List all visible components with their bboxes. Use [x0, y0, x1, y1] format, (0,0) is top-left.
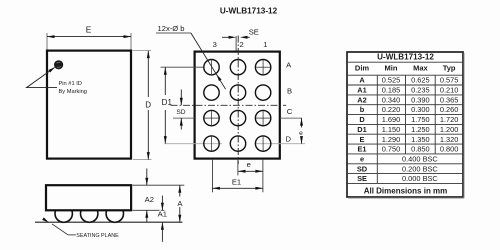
SE label	[249, 27, 259, 36]
svg-text:Pin #1 ID: Pin #1 ID	[59, 81, 82, 87]
svg-text:B: B	[287, 86, 292, 95]
svg-text:Dim: Dim	[355, 64, 370, 73]
svg-text:e: e	[247, 160, 251, 169]
ball B1	[255, 85, 270, 100]
svg-text:0.800: 0.800	[440, 145, 459, 154]
svg-text:1.150: 1.150	[382, 125, 401, 134]
A1 dimension arrows	[161, 196, 164, 242]
table row A1	[357, 86, 458, 95]
package body (side view)	[46, 185, 131, 210]
row label A	[286, 60, 292, 69]
column label 3	[213, 40, 217, 49]
seating plane line	[35, 221, 182, 223]
svg-text:E: E	[360, 135, 365, 144]
svg-text:1.200: 1.200	[440, 125, 459, 134]
table grid vertical lines	[377, 75, 435, 183]
E1 dimension label	[232, 177, 241, 186]
svg-text:0.750: 0.750	[382, 145, 401, 154]
table row e	[360, 154, 438, 163]
seating plane leader	[42, 217, 76, 235]
row C extension line (left, gray)	[173, 117, 195, 119]
ball B3	[204, 85, 219, 100]
SE offset line	[235, 36, 237, 51]
svg-text:A2: A2	[357, 95, 366, 104]
svg-text:1.690: 1.690	[382, 115, 401, 124]
D1 dimension label	[162, 98, 173, 107]
pin #1 leader line	[27, 66, 58, 88]
svg-text:0.200 BSC: 0.200 BSC	[402, 164, 438, 173]
table grid horizontal lines	[347, 62, 463, 183]
svg-text:E1: E1	[357, 145, 366, 154]
svg-text:0.525: 0.525	[382, 76, 401, 85]
svg-text:U-WLB1713-12: U-WLB1713-12	[220, 7, 278, 16]
svg-text:C: C	[287, 107, 293, 116]
table row SD	[357, 164, 439, 173]
svg-text:Max: Max	[413, 64, 428, 73]
A2 dimension label	[145, 195, 154, 204]
row A extension line (left, gray)	[161, 66, 220, 68]
ball C2	[230, 110, 245, 125]
ball A2	[230, 59, 245, 74]
pin #1 ID marking dot	[54, 60, 63, 69]
svg-text:2: 2	[239, 40, 243, 49]
A1 dimension label	[158, 209, 167, 218]
svg-text:0.625: 0.625	[411, 76, 430, 85]
E dimension label	[86, 26, 92, 35]
SD dimension label	[176, 109, 185, 116]
table title	[377, 53, 434, 62]
horizontal centerline	[171, 104, 287, 106]
ball C3	[204, 110, 219, 125]
table outer border	[347, 52, 464, 198]
svg-text:Typ: Typ	[443, 64, 456, 73]
svg-text:By Marking: By Marking	[59, 89, 87, 95]
svg-text:0.340: 0.340	[382, 95, 401, 104]
bottom extension line column 1	[262, 160, 264, 193]
D dimension line with arrows	[147, 51, 150, 160]
A dimension label	[177, 199, 183, 208]
table header row	[355, 64, 456, 73]
svg-text:1.350: 1.350	[411, 135, 430, 144]
svg-text:D1: D1	[357, 125, 366, 134]
ball center cross A3	[211, 60, 213, 74]
vertical centerline (column 2)	[237, 36, 239, 165]
ball D2	[230, 136, 245, 151]
SE dimension arrows	[222, 36, 250, 39]
pin #1 label text	[59, 81, 87, 95]
svg-text:0.220: 0.220	[382, 105, 401, 114]
svg-text:D: D	[286, 134, 292, 143]
row D extension line (right, gray)	[255, 143, 305, 145]
svg-text:0.850: 0.850	[411, 145, 430, 154]
svg-text:e: e	[360, 154, 364, 163]
E dimension extension lines	[47, 33, 131, 50]
solder balls 3x4 grid	[204, 59, 271, 151]
svg-text:12x-Ø b: 12x-Ø b	[158, 24, 185, 33]
svg-text:1.750: 1.750	[411, 115, 430, 124]
svg-text:0.260: 0.260	[440, 105, 459, 114]
ball D3	[204, 136, 219, 151]
svg-text:3: 3	[213, 40, 217, 49]
ball B2	[230, 85, 245, 100]
svg-text:0.365: 0.365	[440, 95, 459, 104]
table footer	[364, 186, 448, 195]
svg-text:E: E	[86, 26, 92, 35]
ball D1	[255, 136, 270, 151]
svg-text:SE: SE	[357, 174, 367, 183]
svg-text:0.575: 0.575	[440, 76, 459, 85]
solder ball bump 1	[55, 205, 72, 222]
e dimension (bottom) arrows	[238, 170, 263, 173]
ball A1	[255, 59, 270, 74]
ball center cross D1	[262, 137, 264, 151]
svg-text:1.320: 1.320	[440, 135, 459, 144]
D dimension label	[145, 100, 151, 109]
svg-text:0.000 BSC: 0.000 BSC	[402, 174, 438, 183]
column label 2	[239, 40, 243, 49]
table row E	[360, 135, 459, 144]
svg-text:SD: SD	[176, 109, 185, 116]
figure title U-WLB1713-12	[220, 7, 278, 16]
svg-text:1.250: 1.250	[411, 125, 430, 134]
E dimension line with arrows	[47, 35, 131, 38]
SD dimension arrows	[180, 90, 183, 130]
table row D	[359, 115, 458, 124]
svg-text:A1: A1	[357, 86, 366, 95]
svg-text:SE: SE	[249, 27, 259, 36]
vertical e dimension (right side)	[300, 118, 303, 144]
table row SE	[357, 174, 438, 183]
column label 1	[263, 40, 267, 49]
package body outline (bottom view)	[195, 52, 280, 159]
row D extension line (left, gray)	[165, 143, 223, 145]
svg-text:0.390: 0.390	[411, 95, 430, 104]
svg-text:0.235: 0.235	[411, 86, 430, 95]
svg-text:D: D	[145, 100, 151, 109]
table row D1	[357, 125, 458, 134]
ball center cross C3	[205, 111, 219, 125]
svg-text:0.300: 0.300	[411, 105, 430, 114]
package top extension line (A dim)	[133, 184, 185, 186]
row label D	[286, 134, 292, 143]
svg-text:All Dimensions in mm: All Dimensions in mm	[364, 186, 448, 195]
vertical e label	[299, 130, 303, 137]
table row A2	[357, 95, 458, 104]
table row E1	[357, 145, 458, 154]
D1 dimension line with arrows	[164, 67, 167, 143]
table row b	[360, 105, 459, 114]
ball C1	[255, 110, 270, 125]
svg-text:0.210: 0.210	[440, 86, 459, 95]
package bottom extension line (A1/A2 dims)	[133, 209, 165, 211]
package body outline (top view)	[47, 51, 131, 159]
seating plane label	[76, 233, 119, 239]
row label B	[287, 86, 292, 95]
svg-text:A2: A2	[145, 195, 154, 204]
svg-text:e: e	[299, 130, 303, 137]
row C extension line (right, gray)	[280, 117, 302, 119]
D dimension extension lines (gray)	[133, 51, 152, 160]
svg-text:SD: SD	[357, 164, 368, 173]
solder ball bump 2	[81, 205, 98, 222]
ball center cross A1	[256, 60, 270, 74]
svg-text:SEATING PLANE: SEATING PLANE	[76, 233, 119, 239]
svg-text:1.290: 1.290	[382, 135, 401, 144]
A dimension arrows	[178, 185, 181, 222]
12x-Ø b label with underline	[156, 24, 191, 33]
E1 dimension arrows	[212, 187, 263, 190]
e dimension label (bottom)	[247, 160, 251, 169]
svg-text:A1: A1	[158, 209, 167, 218]
svg-text:U-WLB1713-12: U-WLB1713-12	[377, 53, 434, 62]
svg-text:D: D	[359, 115, 365, 124]
svg-text:A: A	[359, 76, 365, 85]
svg-text:D1: D1	[162, 98, 173, 107]
bottom extension line column 2	[237, 160, 239, 176]
svg-text:b: b	[360, 105, 365, 114]
svg-text:0.185: 0.185	[382, 86, 401, 95]
bottom extension line column 3	[211, 160, 213, 193]
svg-text:Min: Min	[385, 64, 398, 73]
row label C	[287, 107, 293, 116]
svg-text:1.720: 1.720	[440, 115, 459, 124]
svg-text:E1: E1	[232, 177, 241, 186]
ball center cross D3	[211, 137, 213, 151]
svg-text:1: 1	[263, 40, 267, 49]
svg-text:0.400 BSC: 0.400 BSC	[402, 154, 438, 163]
ball center cross C1	[256, 111, 270, 125]
solder ball bump 3	[106, 205, 123, 222]
12x-Ø b leader line	[191, 33, 226, 89]
ball A3	[204, 59, 219, 74]
table row A	[359, 76, 458, 85]
A2 dimension arrows	[145, 169, 148, 223]
